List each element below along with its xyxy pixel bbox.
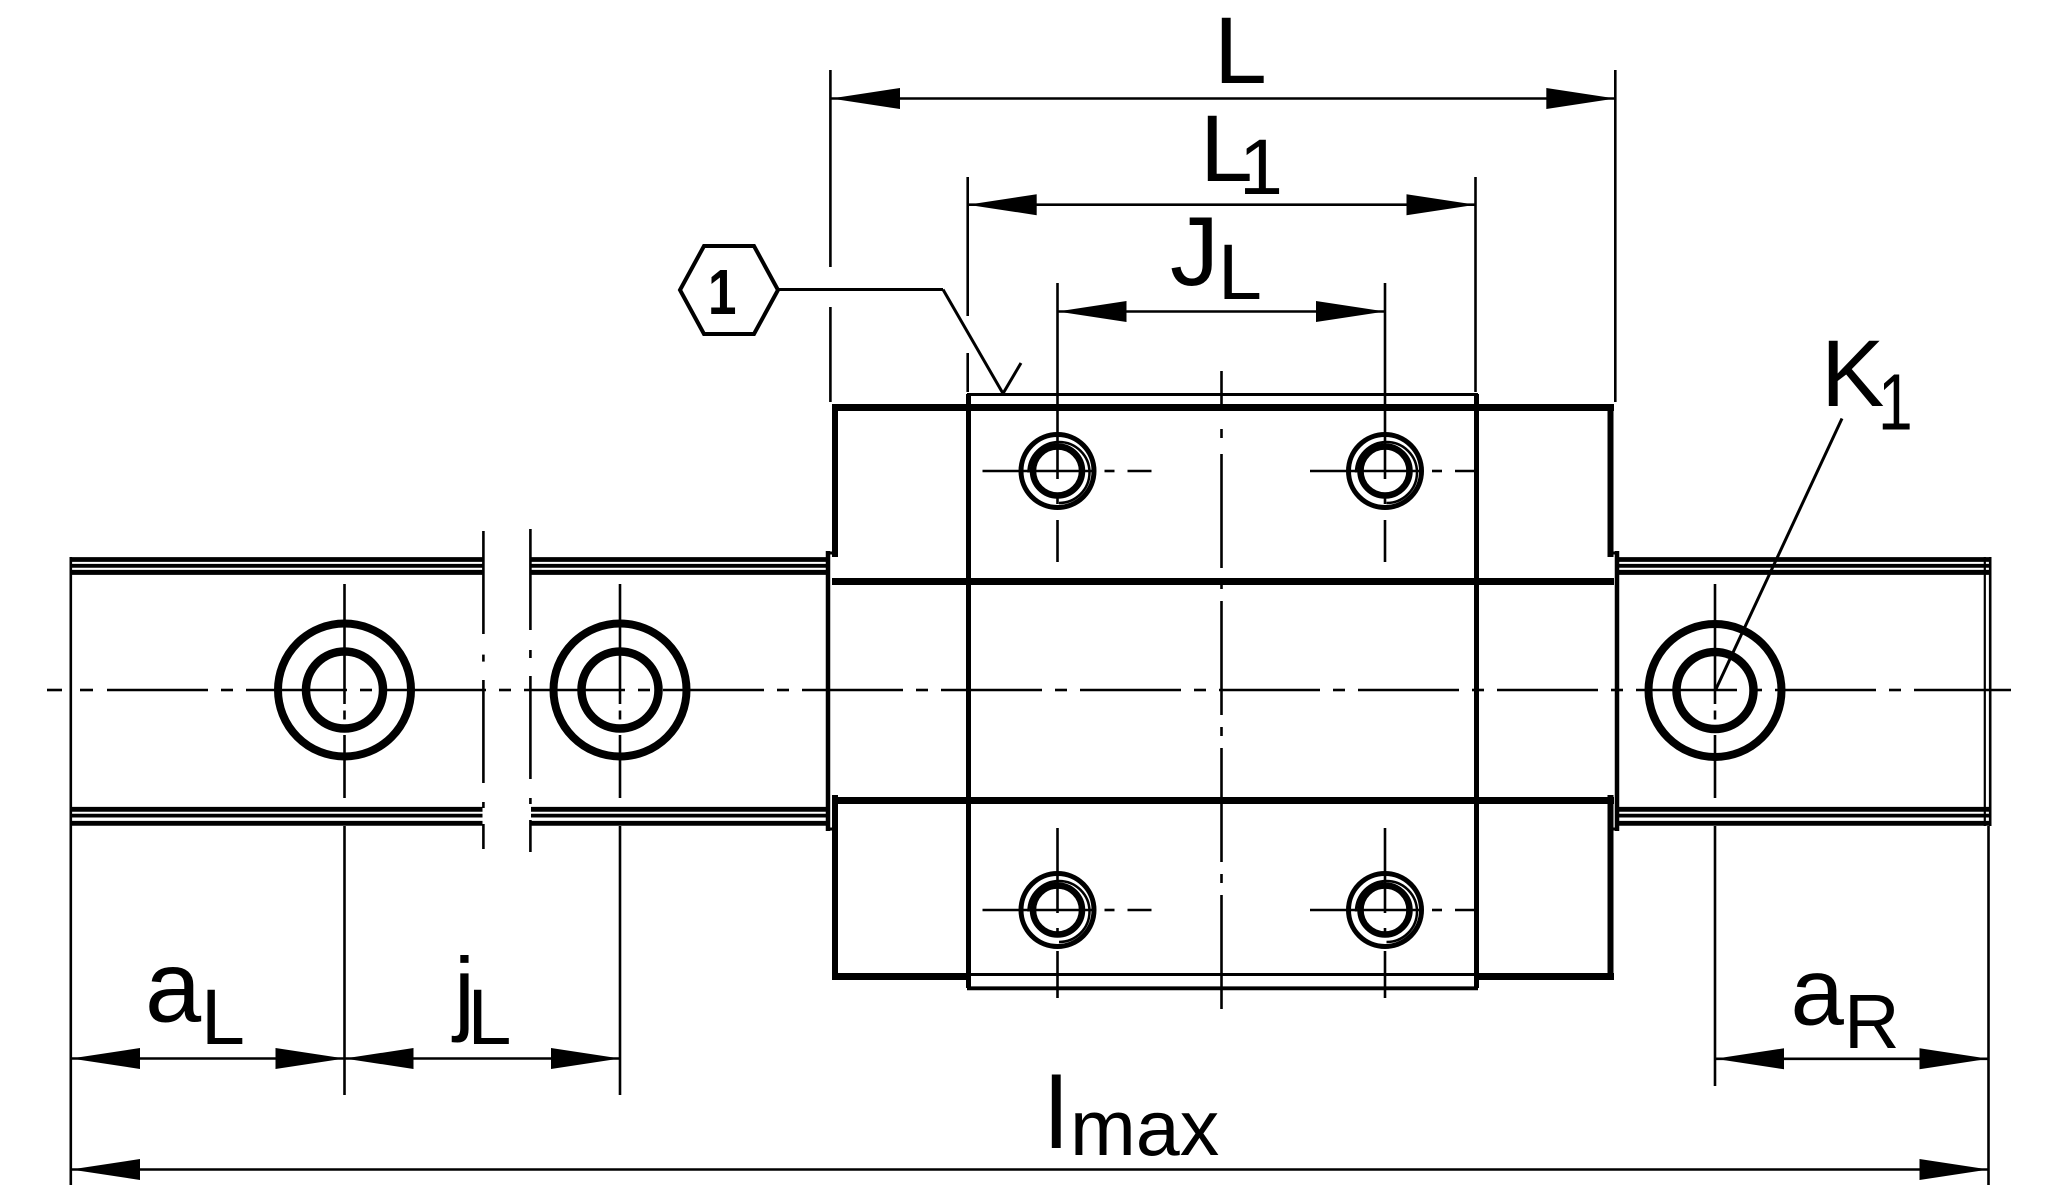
svg-text:1: 1 — [1239, 122, 1283, 211]
svg-text:1: 1 — [708, 257, 736, 328]
svg-text:J: J — [1170, 196, 1219, 306]
svg-text:max: max — [1070, 1083, 1219, 1172]
svg-text:R: R — [1844, 979, 1900, 1065]
svg-text:K: K — [1821, 321, 1884, 427]
svg-text:L: L — [1214, 0, 1267, 104]
svg-text:L: L — [468, 972, 512, 1061]
svg-text:1: 1 — [1878, 358, 1913, 447]
svg-text:l: l — [1045, 1058, 1067, 1170]
svg-text:L: L — [1218, 227, 1262, 316]
svg-text:L: L — [201, 972, 245, 1061]
svg-text:a: a — [1791, 939, 1845, 1046]
svg-text:a: a — [145, 932, 202, 1044]
